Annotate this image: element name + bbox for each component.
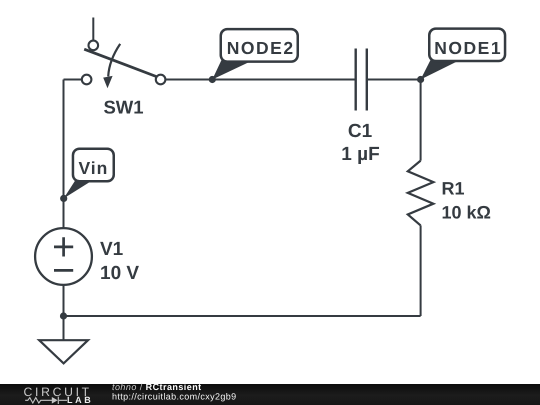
wire resistor bottom to bottom rail: [420, 225, 422, 316]
wire V1 bottom to ground junction: [62, 285, 64, 316]
wire bottom rail: [63, 315, 420, 317]
node label NODE1: [417, 29, 505, 83]
wire ground stem: [62, 316, 64, 340]
switch blade: [84, 49, 156, 76]
NODE1 junction dot: [417, 76, 424, 83]
svg-text:LAB: LAB: [67, 395, 93, 405]
svg-text:V1: V1: [100, 239, 124, 260]
capacitor C1: [341, 49, 379, 166]
CircuitLab logo resistor squiggle: [25, 397, 67, 404]
node label NODE2: [209, 29, 298, 83]
resistor R1: [408, 161, 491, 226]
svg-text:SW1: SW1: [103, 97, 143, 118]
switch motion arrow arc: [108, 44, 120, 77]
plus sign: [54, 237, 73, 256]
svg-text:NODE2: NODE2: [227, 38, 295, 58]
wire switch top stub: [92, 17, 94, 40]
resistor zigzag: [408, 161, 434, 226]
capacitor left plate: [355, 49, 357, 111]
switch right terminal circle: [156, 75, 166, 85]
svg-text:10 kΩ: 10 kΩ: [441, 203, 490, 223]
svg-text:R1: R1: [442, 179, 465, 199]
bottom-left junction dot: [60, 312, 67, 319]
switch pivot terminal circle: [89, 41, 99, 51]
capacitor right plate: [366, 49, 368, 111]
switch SW1: [82, 41, 166, 118]
NODE1 pointer tail: [421, 60, 460, 80]
wire left top from corner to switch left terminal: [64, 78, 82, 80]
NODE2 pointer tail: [212, 60, 253, 80]
minus sign: [54, 269, 73, 272]
svg-text:1 µF: 1 µF: [341, 144, 379, 165]
switch motion arrowhead: [103, 76, 112, 88]
NODE1 bubble: [429, 29, 505, 61]
svg-text:NODE1: NODE1: [434, 38, 502, 58]
svg-text:C1: C1: [348, 121, 373, 142]
ground: [39, 340, 88, 363]
voltage source V1: [35, 228, 139, 285]
source body circle: [35, 228, 92, 285]
NODE2 bubble: [221, 29, 298, 62]
Vin pointer tail: [64, 180, 93, 198]
wire capacitor to NODE1: [367, 79, 421, 81]
Vin bubble: [73, 149, 114, 182]
footer bar: [0, 384, 540, 405]
NODE2 junction dot: [209, 76, 216, 83]
wire NODE1 down to resistor: [420, 80, 422, 161]
svg-text:tohno / RCtransient: tohno / RCtransient: [112, 382, 202, 392]
ground triangle: [39, 340, 88, 363]
wire switch right terminal to capacitor: [166, 78, 356, 80]
wire left rail (switch corner down to V1 top): [62, 79, 64, 228]
svg-text:10 V: 10 V: [100, 263, 139, 284]
svg-text:Vin: Vin: [78, 158, 108, 178]
CircuitLab logo diode arrow: [52, 397, 58, 404]
node label Vin: [60, 149, 114, 202]
svg-text:http://circuitlab.com/cxy2gb9: http://circuitlab.com/cxy2gb9: [112, 391, 237, 401]
switch left terminal circle: [82, 75, 92, 85]
Vin junction dot: [60, 195, 67, 202]
